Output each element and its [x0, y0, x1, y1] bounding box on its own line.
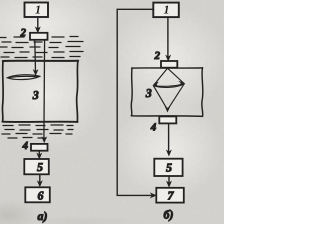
box 5	[24, 159, 49, 174]
box 1 right	[153, 3, 179, 18]
wire box1 to box2	[36, 17, 40, 32]
wire to reflector	[34, 40, 38, 75]
wire through tank to box 4	[42, 40, 46, 142]
beam upper lines	[154, 68, 185, 87]
water surface dashes (upper)	[0, 37, 83, 58]
box 4 right (receiver)	[159, 116, 176, 123]
wire box1 to box2 right	[166, 17, 170, 61]
svg-text:6: 6	[38, 188, 44, 202]
svg-text:4: 4	[150, 122, 157, 134]
svg-text:5: 5	[37, 160, 43, 174]
svg-text:3: 3	[32, 88, 39, 102]
box 2 right (emitter)	[161, 61, 177, 68]
scan background tone	[0, 0, 224, 224]
svg-text:а): а)	[38, 209, 48, 223]
beam converge lines	[154, 84, 185, 112]
box 5 right	[154, 159, 182, 176]
water dashes (lower)	[2, 125, 73, 138]
lens arcs	[153, 84, 184, 88]
feedback wire box1 to box7	[117, 9, 156, 197]
box 7	[156, 188, 184, 203]
box 1	[25, 3, 49, 18]
reflector plate	[7, 75, 39, 80]
wire box4 to box5	[37, 151, 41, 159]
tank 3	[2, 61, 78, 122]
wire box5 to box7	[167, 176, 171, 187]
wire box4 to box5 right	[167, 124, 171, 156]
svg-text:2: 2	[20, 27, 27, 39]
svg-text:5: 5	[166, 161, 172, 175]
wire box5 to box6	[38, 175, 42, 187]
svg-text:2: 2	[153, 50, 160, 62]
svg-text:7: 7	[168, 189, 175, 203]
box 2 (probe)	[30, 33, 48, 40]
vessel walls	[131, 68, 203, 117]
svg-text:б): б)	[164, 208, 174, 222]
svg-text:4: 4	[22, 140, 29, 152]
svg-text:1: 1	[164, 3, 170, 17]
box 4 (receiver probe)	[31, 144, 48, 151]
svg-text:1: 1	[35, 3, 41, 17]
svg-text:3: 3	[145, 86, 152, 100]
box 6	[25, 187, 50, 202]
